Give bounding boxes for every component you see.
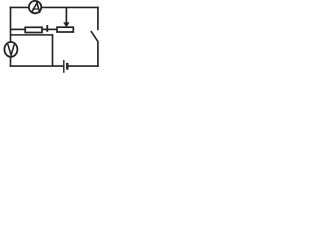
wire right vertical lower bbox=[97, 41, 99, 67]
wire right vertical upper bbox=[97, 7, 99, 31]
ammeter label A bbox=[32, 3, 40, 13]
ammeter U1 circle bbox=[29, 1, 41, 13]
wire left vertical lower bbox=[10, 57, 12, 67]
wire bottom-right segment bbox=[68, 65, 99, 67]
battery BT short thick plate bbox=[66, 63, 68, 70]
resistor R box bbox=[25, 27, 42, 32]
rheostat slider arrowhead bbox=[63, 22, 69, 27]
voltmeter label V bbox=[8, 45, 14, 55]
switch S blade bbox=[91, 31, 98, 42]
battery BT long plate bbox=[63, 60, 65, 73]
wire vertical connector to bottom bbox=[52, 35, 54, 67]
wire middle row right bbox=[42, 28, 57, 30]
rheostat box bbox=[57, 27, 73, 32]
voltmeter U2 circle bbox=[4, 42, 17, 57]
wire voltmeter branch horizontal bbox=[11, 34, 54, 36]
wire bottom-left segment bbox=[10, 65, 64, 67]
wire top-left segment bbox=[10, 6, 29, 8]
wire rheostat slider drop bbox=[65, 8, 67, 23]
junction bar node bbox=[46, 25, 48, 32]
wire top-right segment bbox=[41, 6, 98, 8]
wire left vertical upper bbox=[10, 7, 12, 43]
wire middle row left bbox=[11, 28, 25, 30]
